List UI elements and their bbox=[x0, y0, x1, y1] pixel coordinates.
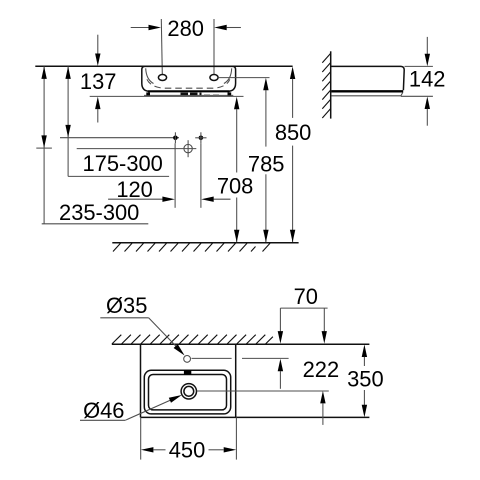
plan rim inner bbox=[149, 375, 227, 410]
side view wall hatch bbox=[322, 54, 330, 119]
drain level line bbox=[77, 148, 197, 150]
bottom reference line bbox=[90, 95, 244, 97]
tap hole level line bbox=[192, 357, 232, 359]
wall top line (front view) bbox=[35, 65, 292, 67]
svg-text:222: 222 bbox=[303, 357, 340, 382]
ground hatch bbox=[113, 243, 270, 251]
svg-text:235-300: 235-300 bbox=[59, 200, 139, 225]
svg-text:175-300: 175-300 bbox=[83, 151, 163, 176]
svg-text:Ø35: Ø35 bbox=[106, 293, 147, 318]
dimension 175-300 supply depth bbox=[65, 66, 169, 176]
dimension 142 side depth bbox=[401, 37, 446, 126]
tap hole left (front) bbox=[158, 75, 166, 81]
side view shelf bottom bbox=[332, 92, 403, 95]
dimension 708 drain height bbox=[217, 97, 254, 243]
plan basin front edge bbox=[141, 416, 370, 418]
svg-text:120: 120 bbox=[116, 177, 153, 202]
plan basin right edge bbox=[235, 344, 237, 417]
extension from supply point 1 bbox=[174, 143, 176, 208]
dimension 785 supply height bbox=[248, 78, 285, 242]
basin inner rim left curve bbox=[146, 68, 154, 83]
dimension 235-300 drain depth bbox=[36, 66, 148, 225]
basin front view outer body bbox=[142, 66, 236, 91]
svg-text:70: 70 bbox=[294, 284, 318, 309]
apron shelf bottom line bbox=[144, 94, 233, 96]
plan drain outer bbox=[181, 384, 196, 399]
side view basin profile bbox=[331, 66, 405, 90]
plan view wall hatch bbox=[112, 335, 273, 344]
drain point bbox=[184, 144, 192, 152]
basin bowl hidden edge dashed bbox=[147, 79, 230, 88]
svg-text:Ø46: Ø46 bbox=[83, 398, 124, 423]
dimension 222 wall to drain bbox=[303, 357, 340, 425]
dimension 120 supply spacing bbox=[108, 177, 230, 202]
plan basin left edge bbox=[140, 344, 142, 417]
supply level extension right bbox=[218, 77, 269, 79]
plan drain inner bbox=[184, 386, 194, 396]
side view body bottom thick bbox=[332, 90, 404, 92]
extension from supply point 2 bbox=[200, 143, 202, 208]
label D35 tap hole bbox=[100, 293, 184, 356]
svg-text:785: 785 bbox=[248, 152, 285, 177]
dimension 70 wall to tap hole bbox=[278, 284, 328, 389]
supply point 2 bbox=[199, 136, 204, 141]
plan tap hole bbox=[184, 356, 191, 363]
dimension 280 tap hole spacing bbox=[131, 16, 241, 74]
drain level line bbox=[197, 390, 329, 392]
supply point 1 bbox=[173, 136, 178, 141]
tap hole right (front) bbox=[210, 75, 218, 81]
dimension 350 basin depth bbox=[347, 345, 384, 418]
svg-text:850: 850 bbox=[275, 120, 312, 145]
drain trap hidden dashes bbox=[181, 93, 202, 96]
apron foot left bbox=[146, 92, 150, 95]
ground line bbox=[112, 242, 298, 244]
svg-text:142: 142 bbox=[409, 67, 446, 92]
svg-text:137: 137 bbox=[80, 69, 117, 94]
label D46 drain bbox=[80, 395, 182, 423]
supply level line bbox=[60, 137, 179, 139]
basin inner rim right curve bbox=[224, 68, 232, 83]
overflow tab bbox=[184, 370, 191, 375]
svg-text:450: 450 bbox=[169, 438, 206, 463]
svg-text:350: 350 bbox=[347, 367, 384, 392]
dimension 850 rim height bbox=[275, 67, 312, 243]
svg-text:280: 280 bbox=[167, 16, 204, 41]
dimension 137 apron height bbox=[80, 35, 117, 123]
basin body bottom thick edge bbox=[148, 90, 229, 92]
svg-text:708: 708 bbox=[217, 174, 254, 199]
plan view wall line bbox=[112, 343, 370, 345]
plan rim outer bbox=[144, 370, 230, 414]
side view wall line bbox=[330, 51, 332, 118]
dimension 450 basin width bbox=[141, 417, 237, 462]
apron foot right bbox=[228, 92, 232, 95]
